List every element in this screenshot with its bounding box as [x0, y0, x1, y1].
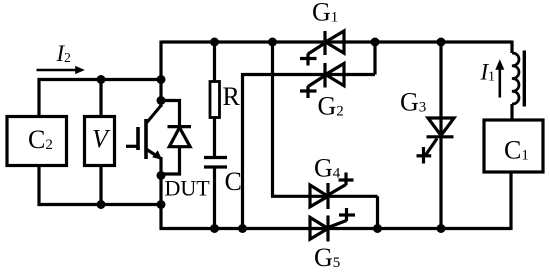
- wire line C (top rail down to G4 row): [271, 42, 274, 196]
- svg-text:G1: G1: [312, 0, 338, 27]
- wire left vertical rail lower: [159, 157, 162, 229]
- box C2: [7, 117, 67, 166]
- arrow I1: [498, 68, 501, 98]
- node top rail line C: [268, 38, 277, 47]
- svg-text:C1: C1: [504, 136, 529, 165]
- thyristor G3: [417, 118, 455, 164]
- resistor R body: [210, 82, 220, 118]
- wire G4 row: [271, 195, 378, 198]
- inductor L1 coil: [512, 53, 519, 104]
- wire left vertical rail upper: [159, 41, 162, 108]
- svg-text:G3: G3: [400, 88, 426, 117]
- diode DUT antiparallel top jog: [161, 101, 180, 127]
- wire G4 jog down to bottom rail: [376, 196, 379, 228]
- diode DUT bottom jog: [161, 147, 180, 174]
- node top rail G3: [437, 38, 446, 47]
- svg-text:G5: G5: [314, 243, 340, 272]
- transistor DUT IGBT gate lead: [126, 145, 138, 148]
- transistor DUT IGBT collector lead: [146, 106, 161, 124]
- thyristor G2: [300, 63, 344, 98]
- transistor DUT IGBT emitter lead: [146, 149, 160, 158]
- node bottom rail G3: [437, 224, 446, 233]
- wire C1 bottom drop: [509, 172, 512, 230]
- diode DUT cathode bar: [168, 125, 192, 128]
- node top rail G1/G2: [371, 38, 380, 47]
- svg-text:G2: G2: [318, 92, 344, 121]
- node DUT top: [157, 96, 166, 105]
- svg-text:G4: G4: [314, 154, 341, 183]
- node left bottom junction: [157, 200, 166, 209]
- arrowhead DUT emitter: [152, 150, 162, 160]
- wire inductor to C1 top: [510, 104, 513, 120]
- inductor L1 core bar: [523, 51, 526, 107]
- wire top-right corner drop: [510, 41, 513, 54]
- wire C2 bottom lead: [39, 166, 162, 205]
- wire bottom rail: [160, 227, 512, 230]
- svg-text:C: C: [225, 167, 242, 196]
- wire R to C: [213, 118, 216, 157]
- thyristor G1: [300, 31, 344, 66]
- node bottom rail C: [210, 224, 219, 233]
- svg-text:DUT: DUT: [165, 176, 211, 201]
- node V bottom junction: [97, 200, 106, 209]
- svg-text:R: R: [223, 82, 241, 111]
- node bottom rail G4: [373, 224, 382, 233]
- node top rail R: [210, 38, 219, 47]
- thyristor G5: [310, 208, 355, 242]
- svg-text:V: V: [92, 125, 111, 154]
- wire line B (G2 left down to bottom rail): [241, 73, 244, 229]
- wire G3 branch: [439, 42, 442, 229]
- arrow I2: [37, 69, 78, 72]
- svg-text:I2: I2: [56, 41, 71, 66]
- wire V bottom lead: [99, 166, 102, 205]
- node bottom rail line B: [238, 224, 247, 233]
- thyristor G4: [310, 173, 354, 210]
- diode DUT triangle: [169, 128, 190, 147]
- transistor DUT IGBT gate bar: [136, 127, 140, 150]
- wire top rail: [161, 40, 512, 43]
- transistor DUT IGBT body bar: [144, 119, 148, 159]
- wire V top lead: [99, 80, 102, 118]
- box C1: [484, 120, 543, 172]
- arrowhead I2: [75, 66, 85, 74]
- node DUT bottom: [157, 171, 166, 180]
- wire G2 jog up to top rail: [373, 42, 376, 75]
- capacitor C bottom plate: [204, 165, 227, 168]
- arrowhead I1: [495, 59, 504, 70]
- node I2/V junction: [97, 75, 106, 84]
- wire C bottom: [213, 169, 216, 229]
- capacitor C top plate: [204, 156, 227, 159]
- box V: [85, 117, 115, 166]
- wire G2 row: [241, 73, 375, 76]
- wire R branch top: [213, 42, 216, 82]
- wire I2 branch (C2 top to rail): [39, 80, 162, 118]
- node I2/rail junction: [157, 75, 166, 84]
- svg-text:C2: C2: [28, 125, 53, 154]
- svg-text:I1: I1: [480, 60, 495, 85]
